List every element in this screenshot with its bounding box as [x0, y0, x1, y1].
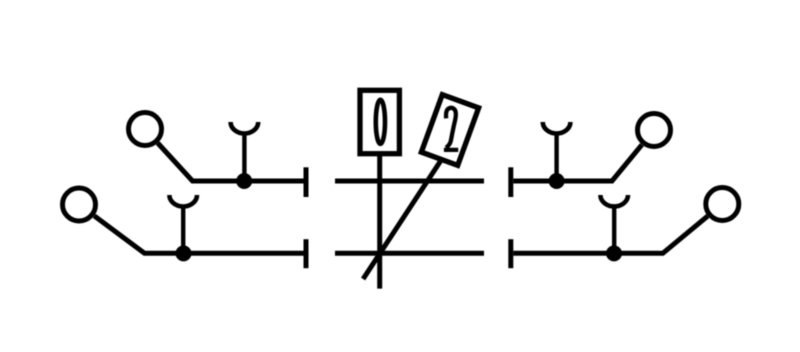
wire upper-right (horizontal + diagonal to circle) [513, 145, 642, 181]
wire lower-right (horizontal + diagonal to circle) [513, 216, 707, 253]
position box 2 (rotated) [421, 95, 478, 166]
test tap lower-right stem [612, 205, 616, 253]
contact bar upper-right [508, 167, 513, 197]
wire middle lower [335, 251, 484, 256]
test tap lower-right arc [600, 195, 628, 206]
digit 0 [376, 100, 385, 144]
wire upper-left (diagonal + horizontal to contact) [158, 143, 304, 181]
switch lever from box 2 [363, 160, 441, 279]
contact bar lower-right [508, 239, 513, 268]
junction dot lower-right [606, 245, 622, 261]
test tap upper-left arc [231, 122, 259, 134]
terminal circle upper-right [638, 114, 671, 147]
contact bar upper-left [304, 167, 309, 197]
wire middle upper [335, 179, 484, 184]
terminal circle lower-left [63, 188, 96, 221]
test tap upper-right arc [543, 122, 571, 134]
test tap lower-left arc [169, 195, 197, 207]
junction dot lower-left [176, 245, 192, 261]
stem of box 0 (vertical) [377, 156, 382, 289]
test tap lower-left stem [181, 205, 185, 253]
wire lower-left (diagonal + horizontal to contact) [94, 216, 303, 253]
test tap upper-right stem [554, 132, 558, 181]
terminal circle lower-right [706, 188, 739, 221]
digit 2 [444, 108, 458, 150]
junction dot upper-left [236, 173, 252, 189]
junction dot upper-right [549, 173, 565, 189]
position box 0 [360, 90, 399, 153]
contact bar lower-left [304, 239, 309, 268]
terminal circle upper-left [129, 113, 162, 146]
test tap upper-left stem [242, 132, 246, 181]
